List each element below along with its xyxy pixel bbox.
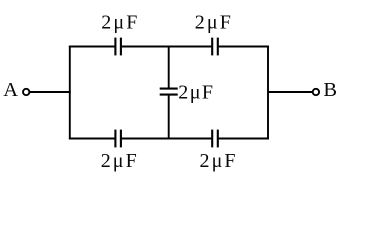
wire bottom-right segment <box>218 138 269 140</box>
terminal B open circle <box>313 89 319 95</box>
capacitor C3 plates (middle 2uF) <box>160 88 178 90</box>
svg-text:2μF: 2μF <box>195 12 233 34</box>
wire left rail (left vertical) <box>69 46 71 140</box>
wire top-left segment <box>69 46 116 48</box>
svg-text:2μF: 2μF <box>200 150 238 172</box>
svg-text:2μF: 2μF <box>101 12 139 34</box>
terminal A open circle <box>23 89 29 95</box>
wire top-right segment <box>218 46 269 48</box>
wire B from right rail <box>268 91 312 93</box>
wire middle branch lower <box>168 95 170 139</box>
svg-text:B: B <box>323 79 337 101</box>
capacitor C4 plates (bottom-left 2uF) <box>114 130 116 148</box>
wire top-middle segment <box>121 46 212 48</box>
wire bottom-middle segment <box>121 138 212 140</box>
wire bottom-left segment <box>69 138 116 140</box>
svg-text:2μF: 2μF <box>101 150 139 172</box>
capacitor C5 plates (bottom-right 2uF) <box>211 130 213 148</box>
wire right rail (right vertical) <box>267 46 269 140</box>
svg-text:A: A <box>3 79 18 101</box>
svg-text:2μF: 2μF <box>178 82 214 104</box>
wire middle branch upper <box>168 47 170 89</box>
capacitor C1 plates (top-left 2uF) <box>114 38 116 56</box>
wire A to left rail <box>30 91 71 93</box>
capacitor C2 plates (top-right 2uF) <box>211 38 213 56</box>
